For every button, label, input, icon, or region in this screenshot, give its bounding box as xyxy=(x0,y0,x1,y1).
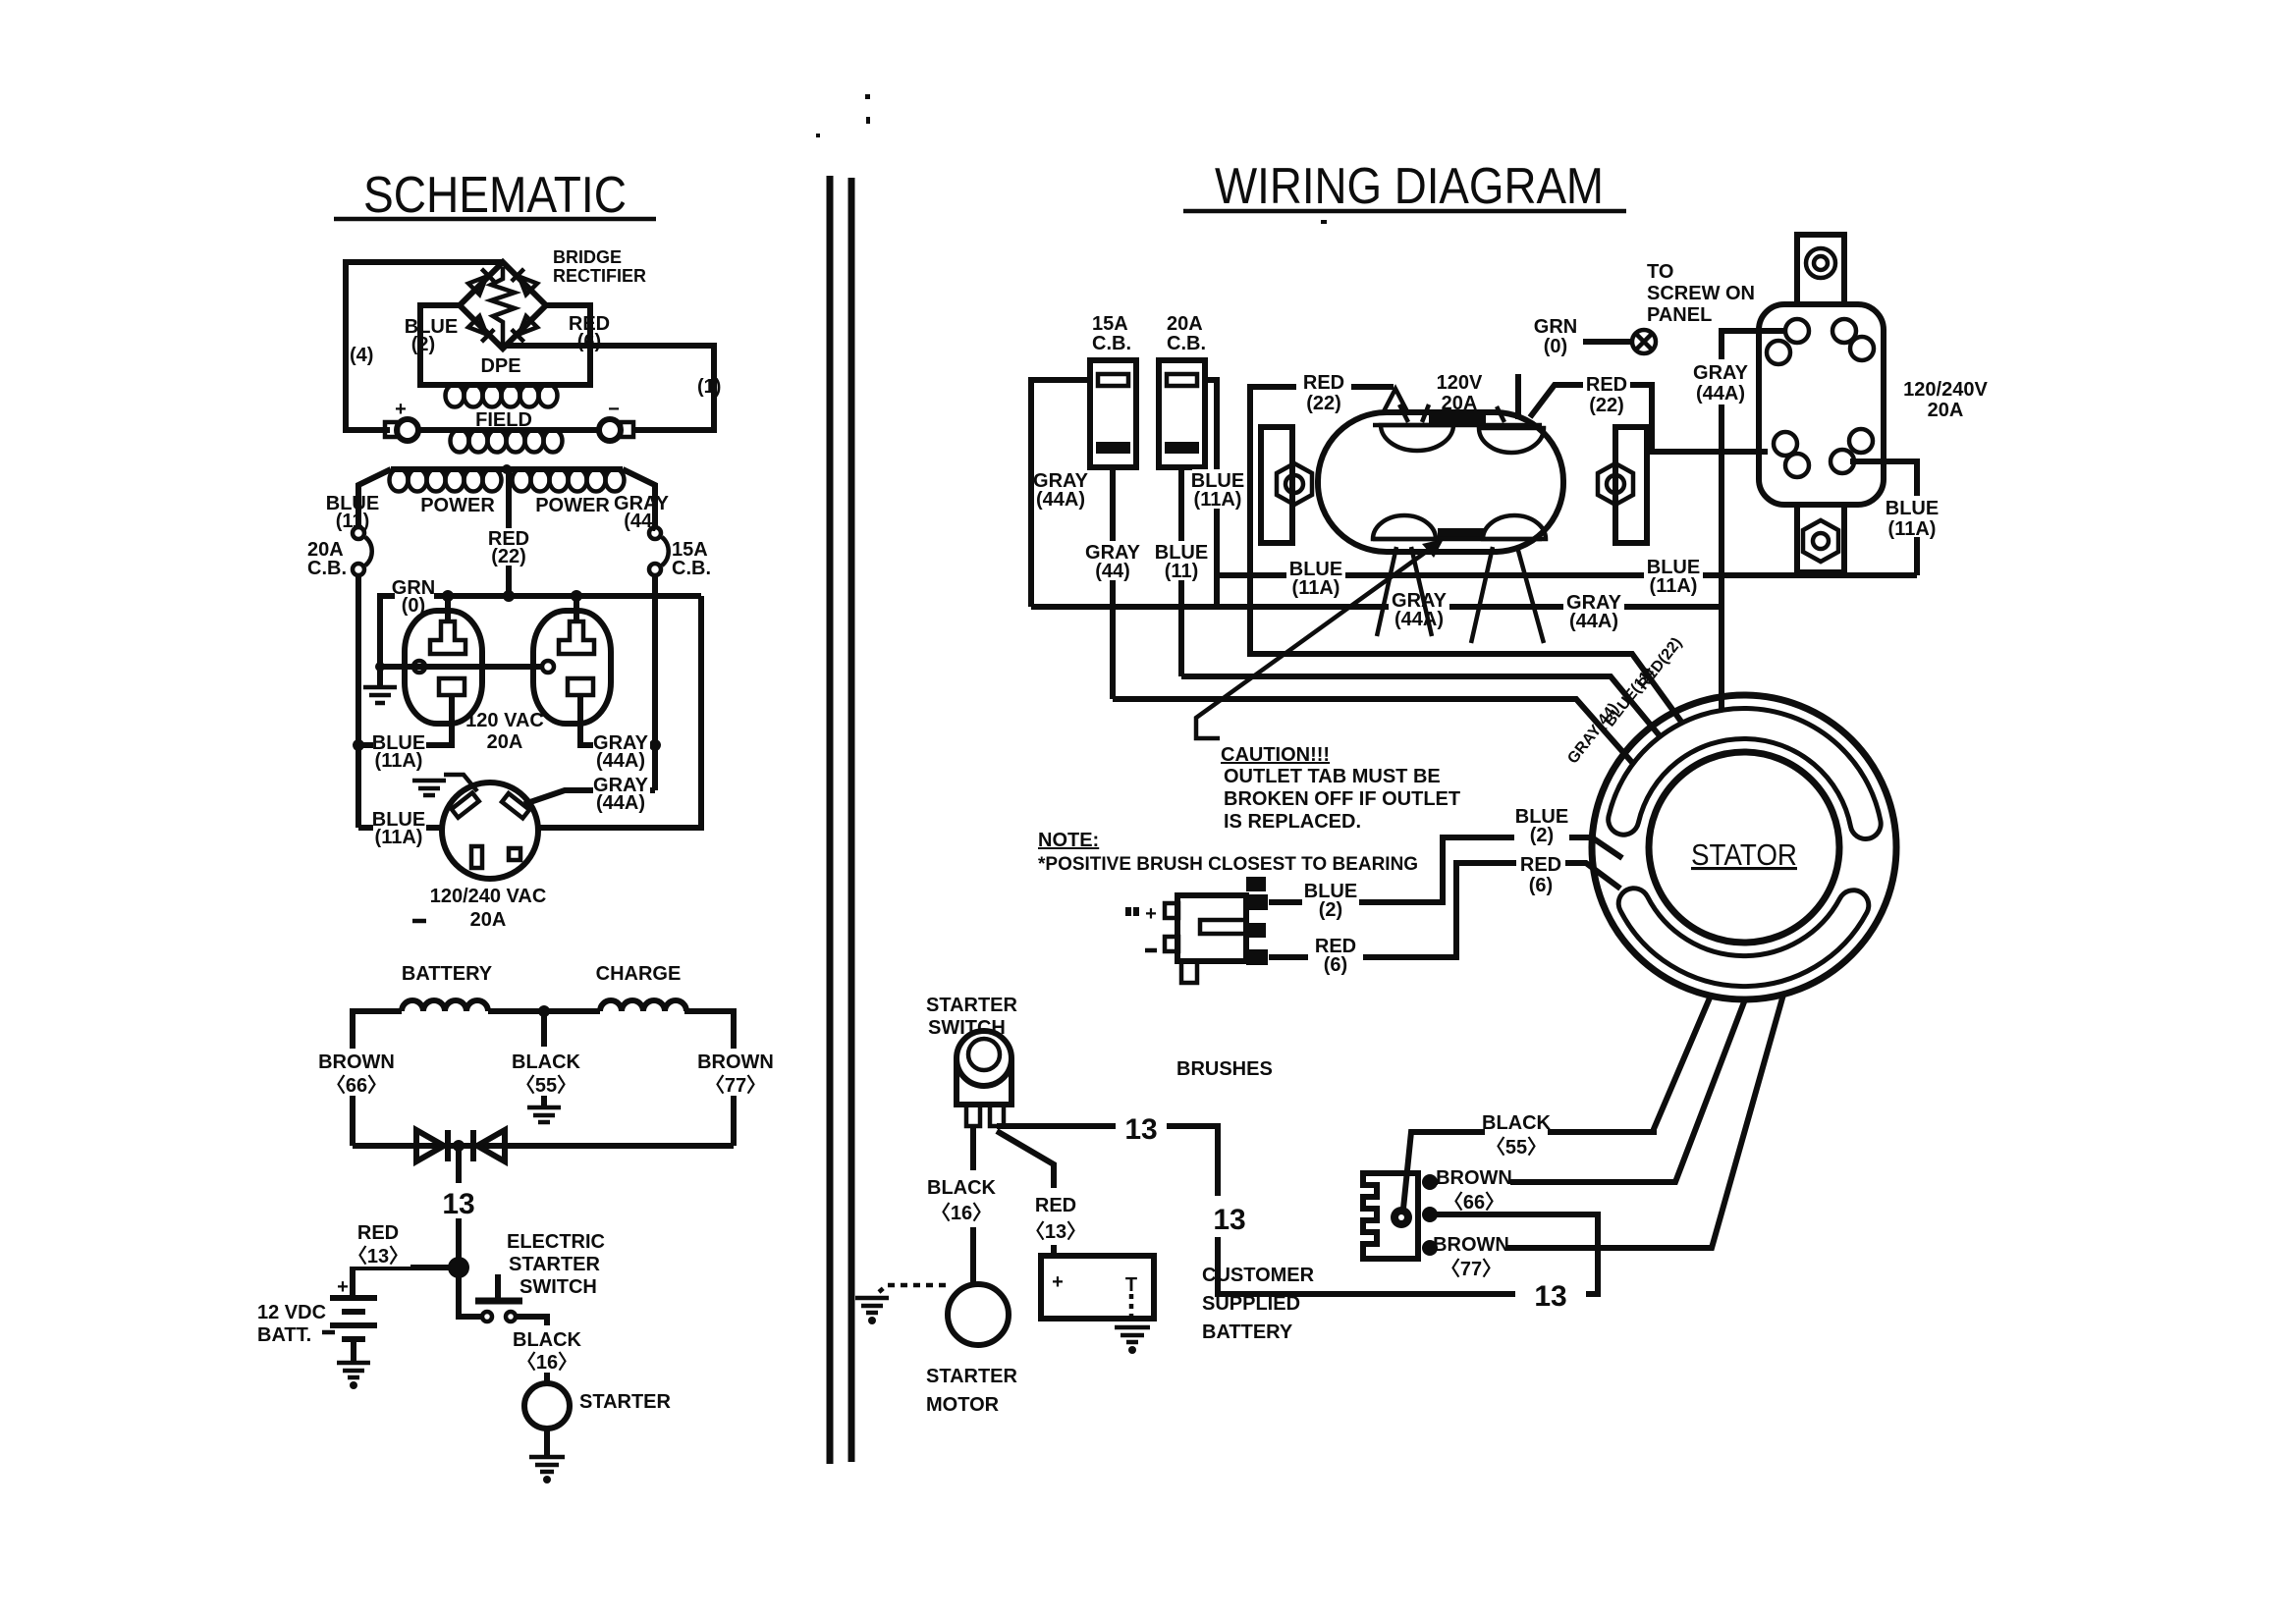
svg-text:〈13〉: 〈13〉 xyxy=(348,1245,409,1267)
wire BLACK(55) to ground xyxy=(541,1011,547,1107)
svg-text:20A: 20A xyxy=(487,731,523,753)
svg-text:FIELD: FIELD xyxy=(475,409,532,431)
node big dot xyxy=(448,1257,469,1278)
field - terminal xyxy=(599,399,633,441)
wire J2 hot to right rail GRAY(44A) xyxy=(580,695,655,745)
FIELD coil L2 xyxy=(418,430,599,453)
outlet 120VAC right J2 xyxy=(533,611,611,724)
wire charge loop right xyxy=(684,1011,734,1146)
wire ground pins link xyxy=(380,664,542,670)
wire 13 down xyxy=(456,1146,462,1267)
starter M1 xyxy=(524,1383,570,1429)
svg-text:(22): (22) xyxy=(1589,395,1624,416)
svg-text:13: 13 xyxy=(442,1188,474,1220)
pin circles xyxy=(1785,319,1809,343)
wire J2 T-slot to bus xyxy=(574,596,579,621)
wire J3 ground xyxy=(444,775,477,791)
svg-text:20A: 20A xyxy=(1928,400,1964,421)
POWER winding right L4 xyxy=(513,469,625,492)
svg-text:(1): (1) xyxy=(697,376,721,398)
wire CB2 bottom BLUE(11) xyxy=(1178,467,1184,676)
top socket left xyxy=(1381,425,1453,451)
coil CHARGE L6 xyxy=(600,1000,686,1011)
svg-text:(44A): (44A) xyxy=(596,792,645,814)
T ground slot xyxy=(559,621,594,654)
circuit breaker 20A C.B. xyxy=(307,527,372,579)
LEFT_HALF xyxy=(257,167,851,1483)
bridge rectifier U1 xyxy=(460,262,546,349)
svg-text:GRAY: GRAY xyxy=(1693,362,1749,384)
svg-text:120V: 120V xyxy=(1437,372,1483,394)
wire center tap xyxy=(488,1008,600,1014)
svg-text:(2): (2) xyxy=(1319,899,1342,921)
svg-text:BATTERY: BATTERY xyxy=(1202,1321,1293,1343)
svg-text:C.B.: C.B. xyxy=(672,558,711,579)
wire BLUE(11A) harness xyxy=(1217,572,1917,578)
label BROWN (66) xyxy=(318,1049,395,1097)
ground symbol at GRN bus xyxy=(363,687,397,703)
wire J1 neutral to left rail BLUE(11A) xyxy=(358,695,452,745)
svg-text:(6): (6) xyxy=(1529,875,1553,896)
wire right power lead xyxy=(623,469,655,527)
customer battery BT2 xyxy=(1041,1256,1154,1319)
svg-text:GRN: GRN xyxy=(1534,316,1577,338)
wire J1 T-slot to bus xyxy=(445,596,451,621)
wire top vertex to rail (4) xyxy=(346,262,503,430)
svg-text:〈77〉: 〈77〉 xyxy=(705,1074,766,1097)
diode D1 top-left edge xyxy=(467,269,494,296)
duplex outlet 120V 20A J4 xyxy=(1261,404,1647,552)
svg-text:(22): (22) xyxy=(1306,393,1341,414)
svg-text:(22): (22) xyxy=(491,546,526,567)
svg-text:BLACK: BLACK xyxy=(1482,1112,1552,1134)
wire J3 right to loop xyxy=(538,596,701,828)
svg-text:CHARGE: CHARGE xyxy=(596,963,682,985)
ground symbol at J3 xyxy=(412,781,446,795)
svg-text:(0): (0) xyxy=(1544,336,1567,357)
svg-text:POWER: POWER xyxy=(535,495,610,516)
svg-text:STARTER: STARTER xyxy=(509,1254,601,1275)
svg-text:BLACK: BLACK xyxy=(513,1329,582,1351)
svg-text:STARTER: STARTER xyxy=(579,1391,672,1413)
outlet 120/240V 20A J5 xyxy=(1759,235,1884,572)
svg-text:(44A): (44A) xyxy=(1569,611,1618,632)
node 13 junction xyxy=(453,1140,465,1152)
diode D5 xyxy=(416,1130,448,1161)
svg-text:(11A): (11A) xyxy=(1292,577,1340,599)
svg-text:(11A): (11A) xyxy=(375,750,423,772)
wire starter to ground xyxy=(544,1429,550,1456)
svg-text:POWER: POWER xyxy=(420,495,495,516)
svg-text:120 VAC: 120 VAC xyxy=(465,710,544,731)
svg-text:BRUSHES: BRUSHES xyxy=(1176,1058,1273,1080)
svg-text:SWITCH: SWITCH xyxy=(519,1276,597,1298)
svg-text:BRIDGE: BRIDGE xyxy=(553,247,622,267)
svg-text:+: + xyxy=(1145,903,1157,925)
outlet 120/240 VAC J3 xyxy=(442,782,538,879)
svg-text:ELECTRIC: ELECTRIC xyxy=(507,1231,605,1253)
label GRN (0) xyxy=(392,577,435,617)
svg-text:WIRING DIAGRAM: WIRING DIAGRAM xyxy=(1215,158,1604,215)
wire RED(22) to 240V outlet xyxy=(1530,385,1768,452)
svg-text:RECTIFIER: RECTIFIER xyxy=(553,266,646,286)
diode D3 bottom-left edge xyxy=(467,315,494,342)
svg-text:STATOR: STATOR xyxy=(1691,837,1797,872)
bottom tab xyxy=(1797,505,1844,572)
coil BATTERY L5 xyxy=(402,1000,488,1011)
svg-text:15A: 15A xyxy=(1092,313,1128,335)
wire GRAY(44A) from J5 to stator xyxy=(1722,331,1785,715)
wire RED(22) harness xyxy=(1250,387,1681,722)
wire BROWN(66) stator to block xyxy=(1435,999,1745,1182)
diode D2 top-right edge xyxy=(512,269,538,296)
top tab xyxy=(1797,235,1844,304)
top socket right xyxy=(1479,428,1544,453)
wire motor ground dashed xyxy=(879,1285,946,1292)
wire BROWN(77) stator to block xyxy=(1435,995,1783,1248)
svg-text:TO: TO xyxy=(1647,261,1673,283)
svg-text:(6): (6) xyxy=(1324,954,1347,976)
svg-text:〈13〉: 〈13〉 xyxy=(1025,1220,1086,1243)
terminal block TB1 xyxy=(1363,1173,1438,1259)
svg-text:SCREW ON: SCREW ON xyxy=(1647,283,1755,304)
wire outlet socket fan right xyxy=(1471,547,1493,643)
slot Y xyxy=(502,793,529,818)
svg-text:RED: RED xyxy=(1520,854,1561,876)
svg-text:13: 13 xyxy=(1213,1204,1245,1236)
wire GRAY(44A) harness xyxy=(1031,604,1722,610)
ground symbol battery2 xyxy=(1115,1327,1150,1342)
diode D6 xyxy=(473,1130,505,1161)
svg-text:(11A): (11A) xyxy=(375,827,423,848)
wire top socket legs left xyxy=(1383,389,1408,413)
circuit breaker 15A C.B. xyxy=(649,527,711,579)
node center tap xyxy=(502,464,512,474)
svg-text:C.B.: C.B. xyxy=(1167,333,1206,354)
svg-text:〈66〉: 〈66〉 xyxy=(1444,1191,1504,1213)
bottom socket left xyxy=(1373,515,1436,539)
svg-text:(11A): (11A) xyxy=(1650,575,1698,597)
circuit breaker CB2 20A xyxy=(1159,360,1205,467)
wire BLUE(11A) from J5 right xyxy=(1850,461,1917,575)
top inner line xyxy=(1373,423,1542,428)
wire BLUE(11) harness to stator xyxy=(1181,676,1667,744)
svg-text:120/240 VAC: 120/240 VAC xyxy=(430,886,547,907)
bottom inner line xyxy=(1373,537,1542,542)
svg-text:BROWN: BROWN xyxy=(697,1052,774,1073)
svg-text:〈16〉: 〈16〉 xyxy=(517,1351,577,1374)
svg-text:RED: RED xyxy=(357,1222,399,1244)
stator xyxy=(1592,695,1896,999)
wire GRAY(44) harness to stator xyxy=(1113,699,1635,766)
svg-text:IS REPLACED.: IS REPLACED. xyxy=(1224,811,1361,833)
svg-text:+: + xyxy=(395,399,407,420)
separator double line xyxy=(827,176,834,1464)
wire 20A CB down left rail xyxy=(355,575,361,828)
svg-text:SWITCH: SWITCH xyxy=(928,1017,1006,1039)
wire BLACK(16) to motor xyxy=(970,1126,976,1284)
svg-text:(44): (44) xyxy=(1095,561,1130,582)
svg-text:PANEL: PANEL xyxy=(1647,304,1712,326)
electric starter switch S1 xyxy=(459,1267,481,1317)
svg-text:RED: RED xyxy=(1303,372,1344,394)
wire RED(22) center tap down xyxy=(506,469,512,596)
wire RED(13) to battery xyxy=(353,1267,459,1298)
svg-text:(11): (11) xyxy=(1165,561,1198,582)
ground symbol battery xyxy=(337,1363,370,1377)
wire CB2 right BLUE(11A) down xyxy=(1205,380,1217,607)
wire GRN riser xyxy=(1515,374,1521,419)
svg-text:〈16〉: 〈16〉 xyxy=(931,1202,992,1224)
wire J3 left BLUE(11A) xyxy=(358,825,443,831)
svg-text:BATT.: BATT. xyxy=(257,1324,311,1346)
brushes BR1 xyxy=(1125,877,1268,983)
svg-text:STARTER: STARTER xyxy=(926,1366,1018,1387)
svg-text:13: 13 xyxy=(1124,1113,1157,1146)
svg-text:OUTLET TAB MUST BE: OUTLET TAB MUST BE xyxy=(1224,766,1441,787)
stator slot top xyxy=(1623,724,1866,824)
wire CB1 bottom GRAY(44) xyxy=(1110,467,1116,699)
wire CB1 left GRAY(44A) down xyxy=(1031,380,1090,607)
bottom black tab xyxy=(1438,528,1485,540)
svg-text:BLACK: BLACK xyxy=(927,1177,997,1199)
svg-text:20A: 20A xyxy=(470,909,507,931)
screw on panel symbol xyxy=(1632,330,1656,353)
svg-text:RED: RED xyxy=(1035,1195,1076,1216)
svg-text:SUPPLIED: SUPPLIED xyxy=(1202,1293,1300,1315)
svg-text:T: T xyxy=(1125,1274,1137,1296)
svg-text:BLUE: BLUE xyxy=(1886,498,1939,519)
wire BLUE(2) brush to stator xyxy=(1269,837,1622,902)
wire 15A CB down right rail xyxy=(652,575,658,790)
wire RED(13) xyxy=(997,1131,1054,1256)
wire RED(6) bridge right vertex to DPE xyxy=(546,305,590,385)
svg-text:BROWN: BROWN xyxy=(1436,1167,1512,1189)
T ground slot xyxy=(430,621,465,654)
svg-text:BLACK: BLACK xyxy=(512,1052,581,1073)
right nut xyxy=(1598,463,1633,505)
zigzag resistor inside bridge xyxy=(491,267,515,344)
svg-text:20A: 20A xyxy=(1167,313,1203,335)
svg-text:(6): (6) xyxy=(577,331,601,352)
svg-text:(2): (2) xyxy=(1530,825,1554,846)
wire BLACK(55) stator to block xyxy=(1403,996,1711,1209)
circuit breaker CB1 15A xyxy=(1090,360,1136,467)
svg-text:(44A): (44A) xyxy=(1696,383,1745,404)
svg-text:C.B.: C.B. xyxy=(1092,333,1131,354)
svg-text:STARTER: STARTER xyxy=(926,995,1018,1016)
ground pin circle xyxy=(413,661,425,673)
node GRAY44A junction xyxy=(649,739,661,751)
svg-text:120/240V: 120/240V xyxy=(1903,379,1988,401)
svg-text:BROWN: BROWN xyxy=(318,1052,395,1073)
field + terminal xyxy=(385,399,418,441)
wire J3 hot GRAY(44A) xyxy=(524,790,655,804)
node battery-charge tap xyxy=(538,1005,550,1017)
svg-text:20A: 20A xyxy=(1442,393,1478,414)
POWER winding left L3 xyxy=(390,469,624,492)
svg-text:CUSTOMER: CUSTOMER xyxy=(1202,1265,1315,1286)
left nut xyxy=(1277,463,1312,505)
bottom socket right xyxy=(1483,515,1546,539)
wire BLACK(16) to starter xyxy=(517,1317,547,1383)
svg-text:−: − xyxy=(608,399,620,420)
svg-text:BATTERY: BATTERY xyxy=(402,963,493,985)
svg-text:12 VDC: 12 VDC xyxy=(257,1302,326,1323)
svg-text:DPE: DPE xyxy=(480,355,520,377)
svg-text:〈55〉: 〈55〉 xyxy=(516,1074,576,1097)
svg-text:CAUTION!!!: CAUTION!!! xyxy=(1221,744,1330,766)
top black tab xyxy=(1429,412,1486,425)
diode D4 bottom-right edge xyxy=(512,315,538,342)
svg-text:RED: RED xyxy=(1586,374,1627,396)
wire BLUE(2) bridge left vertex to DPE xyxy=(420,305,460,385)
label BROWN (77) xyxy=(697,1049,774,1097)
svg-text:SCHEMATIC: SCHEMATIC xyxy=(363,167,627,224)
svg-text:MOTOR: MOTOR xyxy=(926,1394,1000,1416)
svg-text:〈66〉: 〈66〉 xyxy=(326,1074,387,1097)
starter motor M2 xyxy=(948,1284,1009,1345)
left mounting ear xyxy=(1261,427,1292,543)
wire GRN ground bus xyxy=(380,596,701,685)
neutral slot xyxy=(568,678,593,695)
svg-text:(11A): (11A) xyxy=(1194,489,1242,511)
svg-text:+: + xyxy=(337,1276,349,1298)
svg-text:(44A): (44A) xyxy=(1394,609,1444,630)
scan speck dots xyxy=(865,94,870,99)
wire bottom of loop xyxy=(353,1143,734,1149)
slot W xyxy=(471,846,482,868)
wire battery loop left xyxy=(353,1011,402,1146)
starter switch S2 xyxy=(957,1031,1011,1126)
svg-text:13: 13 xyxy=(1534,1280,1566,1313)
wire switch to 13 xyxy=(997,1123,1010,1129)
svg-text:BROWN: BROWN xyxy=(1433,1234,1509,1256)
svg-text:(4): (4) xyxy=(350,345,373,366)
svg-text:+: + xyxy=(1052,1271,1064,1293)
svg-text:(44A): (44A) xyxy=(1036,489,1085,511)
svg-text:(44A): (44A) xyxy=(596,750,645,772)
svg-text:C.B.: C.B. xyxy=(307,558,347,579)
slot X xyxy=(452,792,479,817)
RIGHT_HALF xyxy=(855,158,1988,1416)
right mounting ear xyxy=(1615,427,1647,543)
ground pin circle xyxy=(542,661,554,673)
svg-text:〈55〉: 〈55〉 xyxy=(1486,1136,1547,1159)
wire RED(6) brush to stator xyxy=(1269,863,1620,957)
svg-text:(2): (2) xyxy=(411,334,435,355)
caution arrow xyxy=(1196,542,1440,738)
ground symbol starter xyxy=(529,1457,565,1472)
ground symbol BLACK55 xyxy=(527,1107,561,1122)
battery 12VDC BT1 xyxy=(330,1298,377,1362)
DPE coil L1 xyxy=(446,385,563,407)
svg-text:*POSITIVE BRUSH CLOSEST TO BEA: *POSITIVE BRUSH CLOSEST TO BEARING xyxy=(1038,854,1418,875)
node bus dots xyxy=(442,590,454,602)
wire bottom vertex to rail (1) xyxy=(503,346,714,430)
svg-text:NOTE:: NOTE: xyxy=(1038,830,1099,851)
node BLUE11A junction xyxy=(353,739,364,751)
svg-text:〈77〉: 〈77〉 xyxy=(1441,1258,1502,1280)
outlet 120VAC left J1 xyxy=(405,611,482,724)
svg-text:(11A): (11A) xyxy=(1888,518,1937,540)
neutral slot xyxy=(439,678,465,695)
wire left power lead xyxy=(358,469,391,527)
wire GRN to screw xyxy=(1583,339,1632,345)
stator slot bottom xyxy=(1634,903,1854,971)
svg-text:BROKEN OFF IF OUTLET: BROKEN OFF IF OUTLET xyxy=(1224,788,1460,810)
wire 13 net xyxy=(1010,1126,1598,1294)
slot tab xyxy=(509,848,520,860)
wire outlet socket fan left xyxy=(1377,547,1396,636)
